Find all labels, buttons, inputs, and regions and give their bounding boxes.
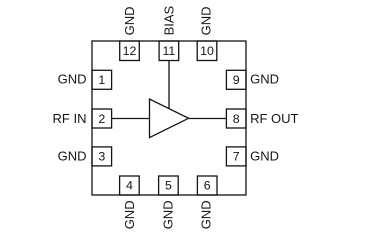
svg-text:GND: GND — [250, 149, 279, 164]
svg-text:GND: GND — [122, 7, 137, 36]
pin 4 box — [120, 176, 140, 195]
svg-text:RF OUT: RF OUT — [250, 111, 298, 126]
pin 10 box — [197, 41, 217, 61]
svg-text:10: 10 — [200, 44, 214, 58]
svg-text:1: 1 — [98, 73, 105, 87]
svg-text:GND: GND — [199, 7, 214, 36]
svg-text:5: 5 — [165, 178, 172, 192]
svg-text:6: 6 — [204, 178, 211, 192]
pin 7 box — [226, 147, 246, 166]
package outline — [92, 41, 246, 195]
pin 1 box — [92, 70, 112, 89]
wire amp output to pin8 — [189, 118, 227, 120]
svg-text:7: 7 — [233, 150, 240, 164]
svg-text:GND: GND — [58, 149, 87, 164]
pin 5 box — [159, 176, 179, 195]
svg-text:12: 12 — [123, 44, 137, 58]
wire pin2 to amp input — [112, 118, 150, 120]
svg-text:8: 8 — [233, 112, 240, 126]
pin 9 box — [226, 70, 246, 89]
pin 2 box — [92, 109, 112, 128]
pin 8 box — [226, 109, 246, 128]
op-amp U1 triangle — [150, 99, 189, 138]
svg-text:GND: GND — [58, 71, 87, 86]
svg-text:GND: GND — [161, 200, 176, 229]
svg-text:11: 11 — [162, 44, 175, 58]
svg-text:GND: GND — [250, 71, 279, 86]
wire pin11 BIAS to amp — [168, 61, 170, 109]
svg-text:BIAS: BIAS — [162, 5, 177, 35]
svg-text:GND: GND — [199, 200, 214, 229]
pin 6 box — [197, 176, 217, 195]
svg-text:GND: GND — [122, 200, 137, 229]
pin 3 box — [92, 147, 112, 166]
svg-text:4: 4 — [126, 178, 133, 192]
pin 12 box — [120, 41, 140, 61]
svg-text:3: 3 — [98, 150, 105, 164]
svg-text:2: 2 — [98, 112, 105, 126]
svg-text:RF IN: RF IN — [53, 111, 87, 126]
svg-text:9: 9 — [233, 73, 240, 87]
pin 11 box — [159, 41, 179, 61]
